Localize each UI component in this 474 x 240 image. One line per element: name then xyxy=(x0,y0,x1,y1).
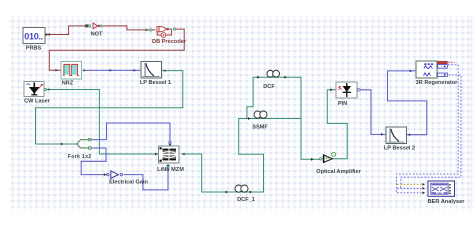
arrow at LP Bessel 2 right xyxy=(408,133,410,136)
arrow into LP Bessel 2 xyxy=(381,133,384,136)
arrow into Optical Amplifier xyxy=(311,158,314,161)
svg-text:LP Bessel 2: LP Bessel 2 xyxy=(384,146,415,152)
component LP Bessel 2 xyxy=(386,127,407,144)
svg-text:DCF_1: DCF_1 xyxy=(237,197,255,203)
wire MZM output through DCF_1 to SSMF staircase xyxy=(182,119,323,193)
arrow into SSMF xyxy=(248,117,251,120)
component Fork 1x2 xyxy=(77,138,91,149)
dashed wire 3R Regenerator output 2 to BER Analyser xyxy=(401,75,461,188)
arrow into NOT xyxy=(85,25,88,28)
arrow into NRZ xyxy=(55,69,58,72)
arrow mid NOT-DBP xyxy=(146,29,149,32)
arrows NRZ to LP Bessel 1 xyxy=(110,69,113,72)
component PIN xyxy=(336,82,357,98)
component DB Precoder xyxy=(157,26,172,37)
port before DB Precoder xyxy=(150,29,152,31)
dashed wire 3R Regenerator output 1 to BER Analyser xyxy=(397,65,459,193)
wire Electrical Gain to MZM bottom xyxy=(124,165,169,190)
svg-text:Electrical Gain: Electrical Gain xyxy=(109,179,148,185)
port PIN output xyxy=(358,89,360,91)
arrows into BER Analyser xyxy=(422,183,425,186)
svg-text:PRBS: PRBS xyxy=(26,45,42,51)
component BER Analyser xyxy=(428,181,455,196)
svg-text:NRZ: NRZ xyxy=(62,81,74,87)
component PRBS xyxy=(23,28,50,44)
gate NOT xyxy=(86,23,102,29)
svg-text:3R Regenerator: 3R Regenerator xyxy=(416,80,458,86)
ports and arrows MZM xyxy=(169,142,171,144)
arrow into PIN xyxy=(330,88,333,91)
dashed input stub 3 BER Analyser xyxy=(397,192,422,194)
svg-text:BER Analyser: BER Analyser xyxy=(428,199,466,205)
arrow into Electrical Gain xyxy=(104,174,106,176)
component 3R Regenerator xyxy=(416,61,447,78)
wire PIN to LP Bessel 2 xyxy=(360,90,386,135)
component DCF (fiber coil) xyxy=(267,70,280,77)
component LP Bessel 1 xyxy=(141,62,162,79)
wire LP Bessel 1 loop to Fork input xyxy=(36,71,183,144)
wire LP Bessel 2 to 3R Regenerator staircase xyxy=(388,71,427,135)
arrow into Fork xyxy=(61,143,64,146)
wire Fork lower output to Electrical Gain xyxy=(81,148,109,175)
dashed red stub from 3R Regenerator red port xyxy=(448,61,455,63)
svg-text:LiNb MZM: LiNb MZM xyxy=(157,167,184,173)
component LiNb MZM xyxy=(159,146,180,163)
wire CW Laser to LiNb MZM optical input xyxy=(46,90,159,155)
arrow into 3R Regenerator xyxy=(410,70,413,73)
component SSMF (fiber coil) xyxy=(254,111,267,118)
component DCF_1 (fiber coil) xyxy=(235,185,248,192)
wire PRBS to NOT xyxy=(46,26,89,35)
port CW Laser output xyxy=(44,88,46,90)
svg-text:SSMF: SSMF xyxy=(252,125,268,131)
svg-text:DCF: DCF xyxy=(263,84,275,90)
wire Optical Amplifier to PIN staircase xyxy=(327,90,347,159)
svg-text:010..: 010.. xyxy=(24,31,43,41)
arrow out of NRZ xyxy=(82,69,84,72)
svg-text:CW Laser: CW Laser xyxy=(24,99,51,105)
component Optical Amplifier xyxy=(320,152,336,162)
svg-text:LP Bessel 1: LP Bessel 1 xyxy=(140,80,171,86)
wire NOT to DB Precoder xyxy=(101,26,156,30)
component NRZ xyxy=(61,62,82,80)
wire jog to DCF input xyxy=(247,77,301,118)
arrow into LP Bessel 1 right side xyxy=(163,69,165,72)
component Electrical Gain xyxy=(107,171,123,178)
dashed input stub 2 BER Analyser xyxy=(397,187,422,189)
component CW Laser xyxy=(24,82,44,97)
svg-text:Fork 1x2: Fork 1x2 xyxy=(68,154,92,160)
wire Fork upper output to MZM top xyxy=(91,123,170,146)
wire DB Precoder to NRZ xyxy=(49,29,184,70)
svg-text:PIN: PIN xyxy=(338,101,347,107)
svg-text:NOT: NOT xyxy=(91,32,103,38)
wire NRZ to LP Bessel 1 xyxy=(84,69,141,71)
arrow into DCF xyxy=(257,76,260,79)
svg-text:DB Precoder: DB Precoder xyxy=(152,39,187,45)
dashed input stub 1 BER Analyser xyxy=(397,183,422,185)
svg-text:Optical Amplifier: Optical Amplifier xyxy=(316,169,361,175)
arrows DCF_1 line xyxy=(226,191,229,194)
